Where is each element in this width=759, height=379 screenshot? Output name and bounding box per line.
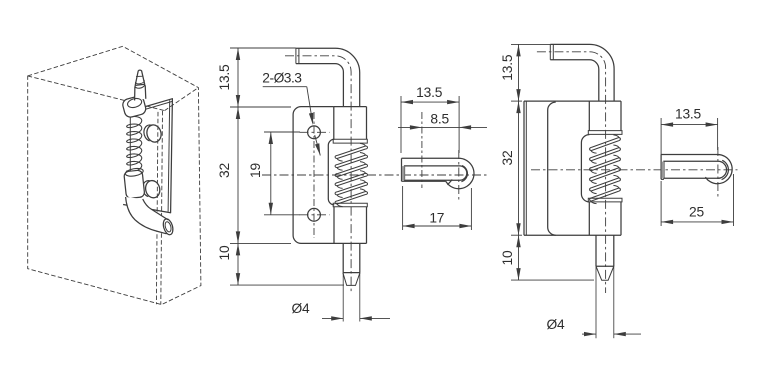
svg-text:32: 32 [217,163,232,178]
svg-text:32: 32 [500,151,515,166]
svg-text:2-Ø3.3: 2-Ø3.3 [262,71,302,86]
svg-text:19: 19 [248,163,263,178]
svg-text:13.5: 13.5 [500,54,515,81]
svg-text:8.5: 8.5 [430,111,449,126]
svg-text:25: 25 [689,205,704,220]
svg-text:13.5: 13.5 [675,107,702,122]
svg-text:10: 10 [500,250,515,265]
svg-text:13.5: 13.5 [217,64,232,91]
svg-text:10: 10 [217,245,232,260]
svg-text:Ø4: Ø4 [291,301,310,316]
svg-text:13.5: 13.5 [416,85,443,100]
svg-text:17: 17 [429,210,444,225]
svg-text:Ø4: Ø4 [546,317,565,332]
